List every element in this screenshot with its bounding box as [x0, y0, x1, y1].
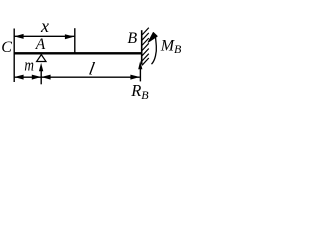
- svg-text:B: B: [174, 42, 182, 56]
- dimension x left arrowhead: [14, 34, 23, 39]
- moment arc M_B: [152, 35, 157, 64]
- dimension m left arrowhead: [14, 75, 23, 80]
- dimension l left arrowhead: [41, 75, 50, 80]
- dimension x line: [14, 35, 74, 37]
- svg-text:x: x: [40, 16, 49, 36]
- fixed wall line at B: [141, 30, 143, 64]
- beam CB: [14, 52, 143, 54]
- reaction arrow at A (upward): [40, 68, 42, 84]
- extension line at C: [13, 29, 15, 83]
- reaction arrow R_B (upward): [139, 68, 141, 81]
- wall hatching: [142, 28, 149, 66]
- section tick (right end of x dimension): [74, 28, 76, 54]
- svg-text:B: B: [127, 30, 137, 47]
- svg-text:m: m: [24, 56, 34, 75]
- pin support triangle at A: [37, 55, 46, 62]
- svg-text:B: B: [141, 88, 149, 102]
- dimension l right arrowhead: [130, 75, 139, 80]
- svg-text:C: C: [1, 39, 12, 56]
- dimension x right arrowhead: [65, 34, 74, 39]
- bottom dimension line (m and l): [14, 76, 140, 78]
- moment arrowhead: [148, 33, 157, 43]
- svg-text:R: R: [130, 81, 141, 100]
- svg-text:A: A: [35, 36, 46, 53]
- dimension m right arrowhead: [32, 75, 41, 80]
